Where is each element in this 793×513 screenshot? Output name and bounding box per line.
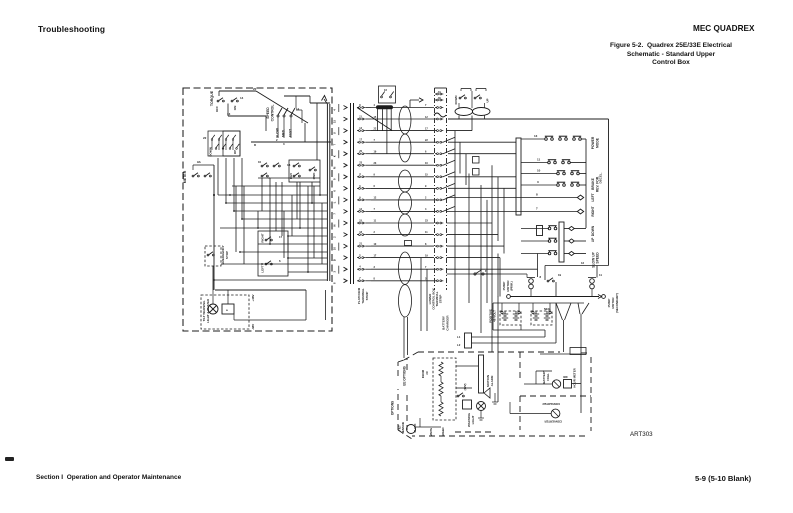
svg-text:10: 10 — [537, 169, 541, 173]
svg-text:11: 11 — [374, 220, 377, 223]
svg-text:K: K — [333, 155, 337, 157]
svg-text:DOWN: DOWN — [454, 96, 458, 105]
svg-text:3: 3 — [333, 270, 337, 272]
svg-text:a: a — [226, 308, 228, 312]
svg-text:14: 14 — [296, 107, 300, 111]
svg-text:(PRIM.): (PRIM.) — [510, 281, 514, 290]
svg-text:9: 9 — [374, 174, 376, 177]
svg-text:CHARGER: CHARGER — [446, 315, 450, 331]
svg-text:13: 13 — [227, 112, 231, 116]
svg-text:11: 11 — [537, 158, 541, 162]
svg-text:20: 20 — [253, 87, 257, 91]
svg-text:GREEN: GREEN — [442, 427, 445, 436]
svg-text:M: M — [333, 166, 337, 169]
svg-text:8: 8 — [536, 193, 538, 197]
svg-text:23: 23 — [425, 220, 428, 223]
svg-text:9: 9 — [425, 185, 427, 188]
svg-text:T: T — [333, 144, 337, 146]
svg-text:10: 10 — [333, 247, 337, 250]
svg-text:8: 8 — [540, 275, 542, 279]
svg-text:7: 7 — [536, 207, 538, 211]
svg-text:31: 31 — [438, 91, 441, 94]
svg-text:19: 19 — [558, 273, 562, 277]
svg-text:3: 3 — [537, 180, 539, 184]
svg-text:ALARM: ALARM — [490, 375, 494, 386]
svg-text:UP: UP — [486, 98, 490, 102]
svg-text:8: 8 — [359, 104, 361, 107]
svg-text:4: 4 — [425, 208, 427, 211]
svg-text:7: 7 — [374, 208, 376, 211]
svg-text:SLOW: SLOW — [276, 128, 280, 138]
svg-text:9: 9 — [359, 196, 361, 199]
svg-text:RIGHT: RIGHT — [591, 206, 595, 216]
svg-text:(12V): (12V) — [463, 384, 467, 391]
svg-text:SPEED: SPEED — [266, 107, 270, 119]
svg-text:12: 12 — [374, 197, 377, 200]
svg-text:U: U — [333, 132, 337, 134]
svg-text:MED.: MED. — [282, 129, 286, 137]
svg-text:OFF: OFF — [215, 106, 219, 112]
svg-text:7: 7 — [425, 266, 427, 269]
svg-text:CONVERTER: CONVERTER — [544, 420, 562, 424]
svg-text:LIGHT: LIGHT — [471, 415, 475, 424]
svg-text:6: 6 — [333, 190, 337, 192]
svg-text:19: 19 — [425, 254, 428, 257]
svg-text:23: 23 — [374, 162, 377, 165]
svg-text:6: 6 — [279, 259, 281, 263]
svg-text:STRIP: STRIP — [365, 292, 369, 301]
svg-text:L1: L1 — [457, 335, 461, 339]
svg-text:9A: 9A — [197, 160, 202, 164]
svg-text:N: N — [333, 224, 337, 226]
svg-text:POWER: POWER — [591, 136, 595, 149]
svg-text:6: 6 — [425, 150, 427, 153]
svg-text:10: 10 — [258, 160, 262, 164]
svg-text:11: 11 — [425, 231, 428, 234]
svg-text:FAST: FAST — [289, 129, 293, 137]
svg-text:D: D — [333, 259, 337, 261]
svg-text:L2: L2 — [457, 343, 461, 347]
svg-text:1: 1 — [359, 254, 361, 257]
svg-text:11: 11 — [599, 273, 602, 277]
svg-text:-48V: -48V — [251, 324, 255, 330]
svg-text:4: 4 — [333, 109, 337, 111]
svg-text:4: 4 — [374, 104, 376, 107]
svg-text:17: 17 — [425, 127, 428, 130]
svg-text:RIGHT: RIGHT — [261, 233, 265, 243]
svg-text:7: 7 — [425, 104, 427, 107]
svg-text:HOUR METER: HOUR METER — [573, 367, 577, 387]
svg-text:16: 16 — [384, 88, 387, 92]
svg-text:ON: ON — [233, 106, 237, 111]
svg-text:8: 8 — [333, 282, 337, 284]
svg-text:15: 15 — [425, 174, 428, 177]
svg-text:48D: 48D — [563, 376, 568, 379]
svg-text:3: 3 — [359, 173, 361, 176]
svg-text:STRIP: STRIP — [439, 295, 443, 304]
svg-text:22: 22 — [425, 139, 428, 142]
svg-text:LEFT: LEFT — [261, 265, 265, 273]
svg-text:UP: UP — [233, 150, 237, 154]
svg-text:4: 4 — [359, 266, 361, 269]
svg-text:CONTROL: CONTROL — [271, 105, 275, 122]
svg-text:DECEL.: DECEL. — [599, 172, 603, 183]
svg-text:LEFT: LEFT — [591, 193, 595, 201]
svg-text:6: 6 — [374, 185, 376, 188]
svg-text:17: 17 — [374, 254, 377, 257]
svg-text:2: 2 — [425, 197, 427, 200]
svg-text:14: 14 — [240, 96, 244, 100]
svg-text:DOWN: DOWN — [591, 225, 595, 236]
svg-text:3: 3 — [283, 142, 285, 146]
svg-text:(SECONDARY): (SECONDARY) — [615, 293, 619, 313]
svg-text:8: 8 — [425, 243, 427, 246]
svg-text:30: 30 — [438, 97, 441, 100]
svg-text:10: 10 — [425, 162, 428, 165]
svg-text:3: 3 — [374, 266, 376, 269]
svg-text:MOTOR: MOTOR — [506, 280, 510, 292]
svg-text:OPTIONS: OPTIONS — [391, 401, 395, 415]
svg-text:CONVERTER: CONVERTER — [542, 402, 560, 406]
svg-text:7: 7 — [333, 213, 337, 215]
svg-text:12: 12 — [425, 116, 428, 119]
svg-text:+48V: +48V — [251, 294, 255, 301]
svg-text:12: 12 — [581, 261, 585, 265]
svg-text:2: 2 — [374, 231, 376, 234]
svg-text:#9: #9 — [425, 371, 429, 375]
svg-text:9: 9 — [333, 178, 337, 180]
svg-text:BRAKE: BRAKE — [591, 177, 595, 190]
svg-text:2: 2 — [333, 236, 337, 238]
svg-text:SPEED: SPEED — [596, 252, 600, 264]
svg-text:FUEL: FUEL — [546, 373, 550, 381]
svg-text:8: 8 — [374, 277, 376, 280]
svg-text:UP: UP — [591, 237, 595, 242]
svg-text:BLACK: BLACK — [414, 423, 417, 432]
svg-text:MODE: MODE — [596, 137, 600, 148]
svg-text:7: 7 — [374, 139, 376, 142]
svg-text:D: D — [254, 143, 257, 147]
svg-text:10: 10 — [374, 243, 377, 246]
svg-text:15: 15 — [333, 120, 337, 123]
svg-text:WHITE: WHITE — [430, 428, 433, 436]
svg-text:22: 22 — [203, 136, 207, 140]
svg-text:EE OPTIONS: EE OPTIONS — [403, 366, 407, 385]
svg-text:19: 19 — [374, 150, 377, 153]
svg-text:L: L — [333, 201, 337, 203]
svg-text:13: 13 — [534, 134, 538, 138]
svg-text:22: 22 — [374, 127, 377, 130]
svg-text:SENSOR: SENSOR — [401, 422, 405, 434]
svg-text:7: 7 — [359, 277, 361, 280]
svg-text:STOP: STOP — [225, 251, 229, 259]
svg-text:6: 6 — [359, 185, 361, 188]
svg-text:TORQUE: TORQUE — [210, 90, 214, 106]
svg-text:METER: METER — [183, 170, 187, 183]
